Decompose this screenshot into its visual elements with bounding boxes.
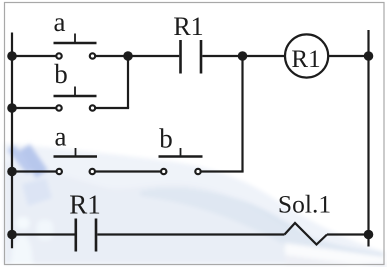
wire rung1 to coil — [202, 55, 285, 57]
svg-text:a: a — [54, 7, 66, 37]
right rail — [367, 30, 369, 247]
svg-text:b: b — [159, 124, 173, 154]
node right rail rung1 — [364, 51, 374, 61]
relay contact R1 rung4 bar right — [95, 219, 98, 252]
svg-text:Sol.1: Sol.1 — [278, 190, 331, 219]
node right rail rung4 — [364, 230, 374, 240]
wire branch b up — [127, 56, 129, 108]
wire rung3 left — [12, 170, 56, 172]
left rail — [11, 33, 13, 249]
contact a rung1 tick — [74, 34, 76, 44]
contact a rung1 circles — [56, 53, 95, 58]
wire rung3 mid — [96, 170, 160, 172]
svg-text:b: b — [54, 59, 68, 89]
contact b rung3 circles — [161, 169, 201, 174]
contact a rung3 bar — [54, 155, 98, 157]
contact b rung2 bar — [54, 95, 97, 97]
svg-text:R1: R1 — [291, 46, 320, 73]
wire rung4 mid — [97, 233, 284, 235]
svg-text:R1: R1 — [173, 12, 203, 41]
relay contact R1 rung1 bar left — [179, 40, 182, 74]
svg-text:a: a — [55, 122, 67, 152]
contact b rung3 tick — [180, 148, 182, 157]
node A branch join — [123, 51, 133, 61]
wire rung3 right — [201, 170, 243, 172]
wire rung2 left — [12, 107, 56, 109]
wire rung4 right — [327, 233, 369, 235]
relay contact R1 rung1 bar right — [200, 40, 203, 74]
contact b rung3 bar — [159, 155, 203, 157]
wire rung1 mid — [96, 55, 179, 57]
wire rung2 right — [96, 107, 129, 109]
contact a rung1 bar — [54, 42, 97, 44]
wire rung4 left — [12, 233, 75, 235]
node B coil join — [238, 51, 248, 61]
contact b rung2 circles — [56, 105, 95, 110]
wire branch up to coil node — [241, 56, 243, 172]
contact b rung2 tick — [74, 87, 76, 97]
svg-text:R1: R1 — [69, 190, 101, 220]
relay coil R1 — [285, 34, 328, 77]
wire rung1 left — [12, 55, 56, 57]
node left rail rung2 — [7, 103, 17, 113]
node left rail rung4 — [7, 230, 17, 240]
contact a rung3 tick — [75, 148, 77, 157]
wire rung1 right — [328, 55, 368, 57]
node left rail rung1 — [7, 51, 17, 61]
relay contact R1 rung4 bar left — [75, 219, 78, 252]
node left rail rung3 — [7, 167, 17, 177]
solenoid Sol.1 zigzag — [285, 223, 328, 245]
contact a rung3 circles — [57, 169, 96, 174]
